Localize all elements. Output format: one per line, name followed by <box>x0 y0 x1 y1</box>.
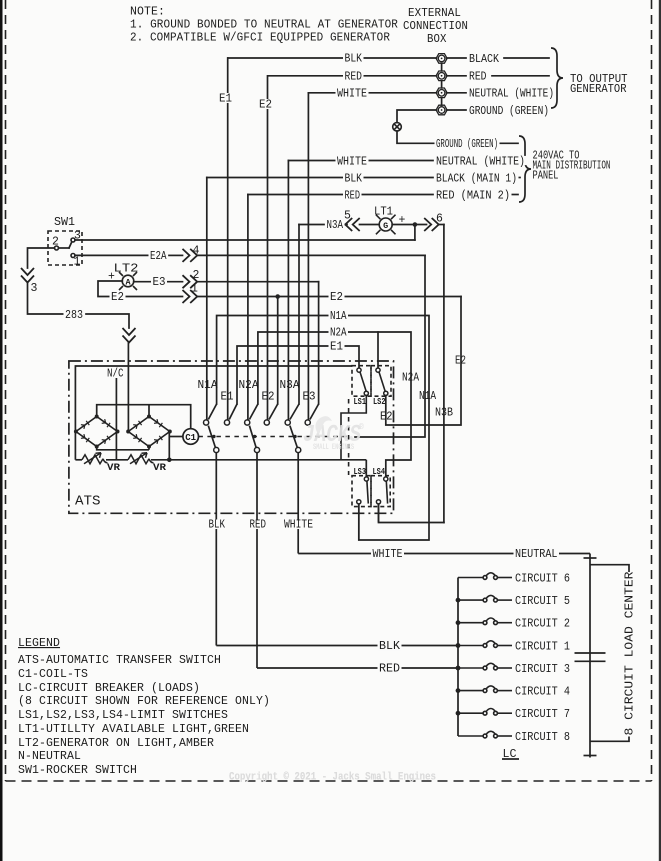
svg-text:BOX: BOX <box>427 33 447 46</box>
svg-text:SW1: SW1 <box>54 216 75 229</box>
svg-text:LT2: LT2 <box>114 263 139 276</box>
svg-text:2. COMPATIBLE W/GFCI EQUIPPED: 2. COMPATIBLE W/GFCI EQUIPPED GENERATOR <box>130 32 390 45</box>
svg-text:N/C: N/C <box>107 368 124 381</box>
svg-text:CIRCUIT 6: CIRCUIT 6 <box>515 572 570 585</box>
svg-text:N2A: N2A <box>330 327 347 340</box>
svg-text:3: 3 <box>31 282 38 295</box>
svg-text:E1: E1 <box>221 391 234 404</box>
svg-text:E2: E2 <box>455 355 466 368</box>
svg-text:LS1,LS2,LS3,LS4-LIMIT SWITCHES: LS1,LS2,LS3,LS4-LIMIT SWITCHES <box>18 709 228 722</box>
svg-text:2: 2 <box>52 236 59 249</box>
svg-text:5: 5 <box>344 210 351 223</box>
svg-text:N3A: N3A <box>327 219 344 232</box>
svg-text:E2: E2 <box>262 391 275 404</box>
svg-text:NOTE:: NOTE: <box>130 6 165 19</box>
svg-text:BLK: BLK <box>379 640 400 653</box>
svg-text:SMALL ENGINES: SMALL ENGINES <box>313 443 354 452</box>
svg-text:RED: RED <box>469 71 487 84</box>
svg-text:2: 2 <box>193 269 200 282</box>
svg-text:NEUTRAL: NEUTRAL <box>515 548 558 561</box>
svg-text:RED: RED <box>345 70 363 83</box>
svg-text:E2: E2 <box>111 291 124 304</box>
svg-text:RED (MAIN 2): RED (MAIN 2) <box>436 189 510 202</box>
svg-text:LS3: LS3 <box>354 467 367 477</box>
svg-text:E2: E2 <box>330 291 343 304</box>
svg-text:E2: E2 <box>380 411 393 424</box>
svg-text:283: 283 <box>65 309 83 322</box>
svg-text:+: + <box>108 271 115 284</box>
svg-text:WHITE: WHITE <box>373 548 403 561</box>
svg-text:N1A: N1A <box>419 390 436 403</box>
svg-text:BLK: BLK <box>209 519 226 532</box>
svg-text:1. GROUND BONDED TO NEUTRAL AT: 1. GROUND BONDED TO NEUTRAL AT GENERATOR <box>130 19 398 32</box>
svg-text:8 CIRCUIT LOAD CENTER: 8 CIRCUIT LOAD CENTER <box>624 571 637 735</box>
svg-text:®: ® <box>359 423 364 432</box>
svg-text:NEUTRAL (WHITE): NEUTRAL (WHITE) <box>436 155 525 168</box>
svg-text:LEGEND: LEGEND <box>18 637 60 650</box>
svg-text:N2A: N2A <box>402 372 419 385</box>
svg-text:BLK: BLK <box>345 172 363 185</box>
svg-text:RED: RED <box>345 189 361 202</box>
svg-text:LT1: LT1 <box>374 206 393 219</box>
svg-text:RED: RED <box>250 519 267 532</box>
svg-text:C1: C1 <box>185 433 196 443</box>
svg-text:BLACK: BLACK <box>469 53 499 66</box>
svg-text:SW1-ROCKER SWITCH: SW1-ROCKER SWITCH <box>18 764 137 777</box>
svg-text:E2A: E2A <box>150 250 167 263</box>
svg-text:LT1-UTILLTY AVAILABLE LIGHT,GR: LT1-UTILLTY AVAILABLE LIGHT,GREEN <box>18 723 249 736</box>
svg-text:ATS-AUTOMATIC TRANSFER SWITCH: ATS-AUTOMATIC TRANSFER SWITCH <box>18 654 221 667</box>
svg-text:VR: VR <box>107 463 120 474</box>
svg-text:N3A: N3A <box>280 379 300 392</box>
svg-text:+: + <box>399 214 406 227</box>
svg-text:LS2: LS2 <box>373 397 386 407</box>
svg-text:1: 1 <box>191 283 198 296</box>
svg-text:E3: E3 <box>303 391 316 404</box>
svg-text:CONNECTION: CONNECTION <box>403 20 468 33</box>
svg-text:N3B: N3B <box>435 407 453 420</box>
svg-text:LS1: LS1 <box>354 397 367 407</box>
svg-text:GROUND (GREEN): GROUND (GREEN) <box>436 138 498 151</box>
svg-text:LC: LC <box>503 748 517 761</box>
svg-text:LC-CIRCUIT BREAKER (LOADS): LC-CIRCUIT BREAKER (LOADS) <box>18 682 200 695</box>
svg-text:E2: E2 <box>259 99 272 112</box>
svg-text:BLACK (MAIN 1): BLACK (MAIN 1) <box>436 172 517 185</box>
svg-text:4: 4 <box>193 245 200 258</box>
svg-text:E3: E3 <box>153 276 166 289</box>
svg-text:N1A: N1A <box>198 379 218 392</box>
svg-text:WHITE: WHITE <box>337 87 367 100</box>
svg-text:G: G <box>383 221 388 231</box>
svg-text:CIRCUIT 2: CIRCUIT 2 <box>515 618 570 631</box>
svg-text:N1A: N1A <box>330 310 347 323</box>
svg-text:(8 CIRCUIT SHOWN FOR REFERENCE: (8 CIRCUIT SHOWN FOR REFERENCE ONLY) <box>18 695 270 708</box>
svg-text:GENERATOR: GENERATOR <box>570 83 627 96</box>
svg-text:E1: E1 <box>219 93 232 106</box>
svg-text:NEUTRAL (WHITE): NEUTRAL (WHITE) <box>469 88 554 101</box>
svg-text:ATS: ATS <box>75 494 101 510</box>
svg-text:RED: RED <box>379 663 400 676</box>
svg-text:CIRCUIT 5: CIRCUIT 5 <box>515 595 570 608</box>
svg-text:LS4: LS4 <box>373 467 386 477</box>
svg-text:CIRCUIT 3: CIRCUIT 3 <box>515 663 570 676</box>
svg-text:LT2-GENERATOR ON LIGHT,AMBER: LT2-GENERATOR ON LIGHT,AMBER <box>18 737 214 750</box>
svg-text:GROUND (GREEN): GROUND (GREEN) <box>469 105 549 118</box>
svg-text:WHITE: WHITE <box>284 519 313 532</box>
svg-text:6: 6 <box>436 213 443 226</box>
svg-text:CIRCUIT 7: CIRCUIT 7 <box>515 708 570 721</box>
svg-text:CIRCUIT 8: CIRCUIT 8 <box>515 731 570 744</box>
svg-text:CIRCUIT 1: CIRCUIT 1 <box>515 640 570 653</box>
svg-text:C1-COIL-TS: C1-COIL-TS <box>18 668 88 681</box>
svg-text:WHITE: WHITE <box>337 155 367 168</box>
svg-text:EXTERNAL: EXTERNAL <box>408 7 461 20</box>
svg-text:N-NEUTRAL: N-NEUTRAL <box>18 750 81 763</box>
svg-text:VR: VR <box>153 463 166 474</box>
svg-text:1: 1 <box>74 256 81 269</box>
svg-text:PANEL: PANEL <box>533 170 559 183</box>
svg-text:E1: E1 <box>330 341 343 354</box>
svg-text:Copyright © 2021 - Jacks Small: Copyright © 2021 - Jacks Small Engines <box>229 772 436 784</box>
svg-text:3: 3 <box>74 230 81 243</box>
svg-text:BLK: BLK <box>345 53 363 66</box>
svg-text:A: A <box>125 277 131 287</box>
svg-text:N2A: N2A <box>239 379 259 392</box>
svg-text:CIRCUIT 4: CIRCUIT 4 <box>515 685 570 698</box>
